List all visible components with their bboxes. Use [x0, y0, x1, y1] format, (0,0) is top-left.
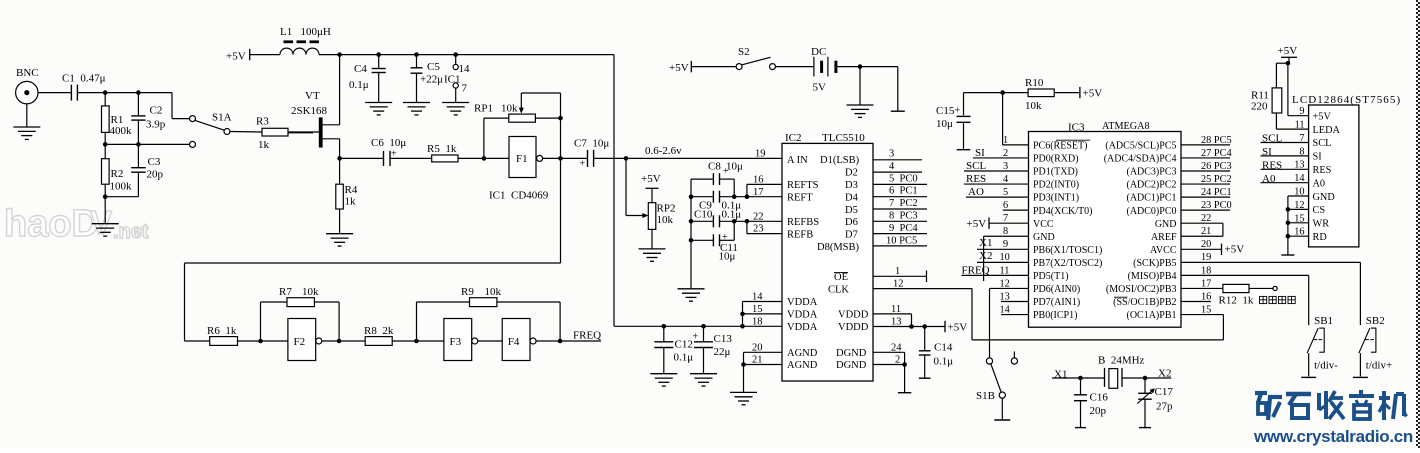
- capacitor C13: [701, 324, 706, 329]
- svg-text:AGND: AGND: [787, 348, 818, 359]
- svg-text:PC6(RESET): PC6(RESET): [1033, 141, 1087, 152]
- svg-text:PD3(INT1): PD3(INT1): [1033, 193, 1079, 204]
- LCD pin labels: [1313, 111, 1341, 243]
- svg-text:C10: C10: [694, 209, 713, 221]
- svg-text:CLK: CLK: [828, 284, 849, 295]
- svg-text:LCD12864(ST7565): LCD12864(ST7565): [1292, 94, 1401, 106]
- svg-text:23 PC0: 23 PC0: [1201, 200, 1232, 211]
- svg-text:27 PC4: 27 PC4: [1201, 148, 1232, 159]
- svg-text:PB7(X2/TOSC2): PB7(X2/TOSC2): [1033, 258, 1102, 269]
- ground: [365, 102, 392, 104]
- resistor R2: [104, 144, 106, 158]
- svg-text:(OC1A)PB1: (OC1A)PB1: [1126, 310, 1176, 321]
- svg-text:5: 5: [1003, 187, 1008, 198]
- wire OE: [873, 275, 927, 277]
- svg-text:8: 8: [1003, 226, 1008, 237]
- wire (REFB pin23): [747, 233, 782, 235]
- wire pin19 SCK to SB2: [1181, 261, 1360, 263]
- svg-text:D1(LSB): D1(LSB): [820, 155, 860, 166]
- svg-text:S2: S2: [738, 46, 750, 58]
- svg-text:16: 16: [1201, 291, 1211, 302]
- svg-text:AREF: AREF: [1151, 232, 1177, 243]
- svg-text:+5V: +5V: [1225, 244, 1245, 256]
- wire D1: [873, 159, 922, 161]
- svg-text:(MOSI/OC2)PB3: (MOSI/OC2)PB3: [1106, 284, 1177, 295]
- capacitor C1: [70, 85, 72, 101]
- svg-text:C4: C4: [354, 63, 367, 75]
- svg-text:WR: WR: [1313, 219, 1330, 230]
- svg-text:R6 1k: R6 1k: [207, 325, 237, 337]
- svg-text:PB0(ICP1): PB0(ICP1): [1033, 310, 1077, 321]
- svg-text:RD: RD: [1313, 232, 1328, 243]
- wire LCD GND chain: [1288, 195, 1309, 197]
- svg-text:10k: 10k: [501, 103, 518, 115]
- wire AGND: [744, 351, 783, 353]
- wire RESET: [1002, 93, 1004, 145]
- wire: [322, 340, 365, 342]
- svg-text:(ADC5/SCL)PC5: (ADC5/SCL)PC5: [1105, 141, 1176, 152]
- wire pins 28-23 stubs: [1181, 144, 1230, 146]
- svg-text:+5V: +5V: [1278, 45, 1298, 57]
- svg-text:AO: AO: [968, 186, 984, 198]
- svg-text:12: 12: [1000, 278, 1010, 289]
- svg-text:21: 21: [752, 355, 763, 366]
- node: [1143, 376, 1148, 381]
- svg-text:C5: C5: [427, 61, 440, 73]
- ground: [26, 104, 28, 127]
- svg-text:A IN: A IN: [787, 155, 808, 166]
- svg-text:19: 19: [755, 149, 766, 160]
- resistor R9: [416, 302, 418, 341]
- svg-text:FREQ: FREQ: [962, 264, 990, 276]
- wire D6: [873, 220, 927, 222]
- node: [624, 156, 629, 161]
- svg-text:400k: 400k: [110, 125, 133, 137]
- svg-text:F2: F2: [294, 336, 306, 348]
- svg-text:D8(MSB): D8(MSB): [817, 242, 860, 253]
- svg-text:C8: C8: [708, 160, 721, 172]
- svg-text:10μ: 10μ: [936, 118, 953, 130]
- node: [103, 194, 108, 199]
- svg-text:SCL: SCL: [1313, 138, 1332, 149]
- svg-text:22μ: 22μ: [714, 346, 731, 358]
- svg-text:VCC: VCC: [1033, 219, 1054, 230]
- svg-text:18: 18: [1201, 265, 1211, 276]
- svg-text:D6: D6: [845, 217, 858, 228]
- svg-text:0.1μ: 0.1μ: [722, 209, 742, 221]
- svg-text:IC3: IC3: [1068, 121, 1085, 133]
- svg-text:DC: DC: [811, 46, 826, 58]
- svg-text:C6 10μ: C6 10μ: [371, 137, 406, 149]
- wire (REFBS pin22): [747, 220, 782, 222]
- capacitor C11: [689, 238, 694, 243]
- svg-text:www.crystalradio.cn: www.crystalradio.cn: [1253, 427, 1413, 446]
- ground: [403, 102, 430, 104]
- svg-text:FREQ: FREQ: [573, 329, 601, 341]
- svg-text:DGND: DGND: [836, 360, 867, 371]
- svg-text:D7: D7: [845, 229, 858, 240]
- wire: [478, 340, 502, 342]
- node: [414, 52, 419, 57]
- svg-text:0.6-2.6v: 0.6-2.6v: [645, 145, 682, 157]
- svg-text:X1: X1: [979, 237, 992, 249]
- svg-text:0.1μ: 0.1μ: [674, 352, 694, 364]
- node (F1 output): [558, 156, 563, 161]
- capacitor C15: [963, 93, 965, 116]
- svg-text:+: +: [955, 105, 961, 116]
- wire: [77, 92, 172, 94]
- ground: [859, 67, 861, 105]
- wire: [536, 340, 601, 342]
- svg-text:PD0(RXD): PD0(RXD): [1033, 154, 1079, 165]
- wire: [560, 158, 562, 263]
- svg-text:DGND: DGND: [836, 348, 867, 359]
- power +5V pin20 AVCC: [1181, 248, 1222, 250]
- svg-text:R8 2k: R8 2k: [364, 325, 394, 337]
- wire pin6 stub: [1003, 209, 1029, 211]
- svg-text:PB6(X1/TOSC1): PB6(X1/TOSC1): [1033, 245, 1102, 256]
- switch S1B: [986, 358, 992, 364]
- wire D5: [873, 208, 927, 210]
- wire D8: [873, 245, 927, 247]
- svg-text:10k: 10k: [1025, 100, 1042, 112]
- wire: [319, 54, 614, 56]
- svg-text:1k: 1k: [345, 196, 357, 208]
- LCD pin numbers: [1294, 106, 1304, 238]
- wire pin15 OC1A: [1181, 314, 1223, 316]
- IC3 ATMEGA8 box: [1029, 132, 1182, 328]
- op-amp U IC2 TLC5510 box: [782, 143, 873, 381]
- svg-text:28 PC5: 28 PC5: [1201, 135, 1232, 146]
- svg-text:REFBS: REFBS: [787, 217, 819, 228]
- svg-text:7: 7: [462, 82, 468, 94]
- decor: [1255, 390, 1407, 420]
- svg-text:t/div-: t/div-: [1314, 359, 1338, 371]
- ground: [104, 197, 106, 224]
- node: [136, 90, 141, 95]
- svg-text:19: 19: [1201, 252, 1211, 263]
- IC1 power pin 7: [453, 83, 458, 88]
- svg-text:+: +: [580, 159, 586, 170]
- svg-text:GND: GND: [1033, 232, 1055, 243]
- svg-text:X2: X2: [979, 250, 992, 262]
- svg-text:F3: F3: [450, 336, 462, 348]
- svg-text:R3: R3: [256, 116, 269, 128]
- svg-text:12: 12: [893, 278, 904, 289]
- svg-text:D5: D5: [845, 205, 858, 216]
- svg-text:SI: SI: [1313, 152, 1323, 163]
- svg-text:RP2: RP2: [657, 203, 676, 215]
- resistor R3: [262, 128, 288, 136]
- svg-text:C13: C13: [714, 333, 733, 345]
- svg-text:2: 2: [1003, 148, 1008, 159]
- wire: [105, 196, 138, 198]
- wire pin13 stub: [1001, 301, 1029, 303]
- node: [337, 156, 342, 161]
- svg-text:+5V: +5V: [1313, 111, 1332, 122]
- ground: [326, 233, 353, 235]
- svg-text:B 24MHz: B 24MHz: [1098, 355, 1145, 367]
- wire DGND: [873, 351, 905, 353]
- svg-text:6: 6: [1003, 200, 1008, 211]
- IC3 pin labels left: [1033, 141, 1102, 322]
- svg-text:+5V: +5V: [641, 173, 661, 185]
- wire: [238, 340, 288, 342]
- wire pin22-21 tie: [1181, 222, 1223, 224]
- svg-text:C1 0.47μ: C1 0.47μ: [62, 73, 106, 85]
- node: [453, 52, 458, 57]
- svg-text:+5V: +5V: [948, 321, 968, 333]
- inverter F4: [502, 319, 530, 361]
- svg-text:23: 23: [753, 224, 764, 235]
- svg-text:D3: D3: [845, 180, 858, 191]
- IC2 pin labels right: [817, 155, 869, 371]
- svg-text:+22μ: +22μ: [420, 74, 443, 86]
- wire VDDA 15: [743, 313, 783, 315]
- resistor R7: [260, 302, 262, 341]
- svg-text:22: 22: [753, 211, 764, 222]
- wire: [288, 131, 319, 133]
- resistor R1: [104, 93, 106, 106]
- svg-text:GND: GND: [1313, 192, 1336, 203]
- decor: [4, 203, 149, 245]
- inverter F2: [288, 319, 316, 361]
- svg-text:3.9p: 3.9p: [146, 119, 166, 131]
- wire: [776, 66, 814, 68]
- resistor R11: [1276, 62, 1288, 64]
- svg-text:ATMEGA8: ATMEGA8: [1102, 121, 1150, 132]
- wire D7: [873, 233, 927, 235]
- svg-text:9: 9: [1003, 239, 1008, 250]
- svg-text:220: 220: [1251, 100, 1268, 112]
- svg-text:3: 3: [889, 149, 894, 160]
- svg-text:F1: F1: [516, 153, 528, 165]
- svg-text:R2: R2: [111, 168, 124, 180]
- svg-text:13: 13: [1000, 291, 1010, 302]
- svg-text:X2: X2: [1158, 368, 1171, 380]
- svg-text:CS: CS: [1313, 205, 1326, 216]
- node: [337, 52, 342, 57]
- svg-text:0.1μ: 0.1μ: [349, 79, 369, 91]
- svg-text:haoD: haoD: [4, 203, 99, 245]
- capacitor C5: [416, 55, 418, 68]
- capacitor C14: [924, 327, 926, 351]
- svg-text:20: 20: [1201, 239, 1211, 250]
- node: [103, 142, 108, 147]
- node: [1078, 376, 1083, 381]
- svg-text:t/div+: t/div+: [1366, 359, 1392, 371]
- svg-text:4: 4: [889, 161, 895, 172]
- svg-text:VDDA: VDDA: [787, 322, 818, 333]
- svg-text:D4: D4: [845, 193, 859, 204]
- capacitor C12: [662, 324, 667, 329]
- svg-text:TLC5510: TLC5510: [822, 132, 865, 144]
- wire pin18 MISO to SB1: [1181, 274, 1309, 276]
- svg-text:27p: 27p: [1156, 401, 1173, 413]
- svg-text:15: 15: [1201, 304, 1211, 315]
- LCD12864 box: [1309, 105, 1359, 247]
- capacitor C6: [340, 157, 384, 159]
- capacitor C10: [689, 219, 694, 224]
- resistor R5: [390, 157, 432, 159]
- svg-text:1k: 1k: [258, 139, 270, 151]
- svg-text:VT: VT: [305, 90, 320, 102]
- svg-text:2SK168: 2SK168: [291, 105, 328, 117]
- svg-text:16: 16: [753, 175, 764, 186]
- wire VDDD 13 to +5V: [873, 326, 945, 328]
- ground: [730, 391, 757, 393]
- capacitor C17 (trimmer): [1144, 378, 1146, 393]
- svg-text:L1 100μH: L1 100μH: [280, 26, 331, 38]
- inverter F1: [509, 137, 536, 178]
- wire: [543, 157, 588, 159]
- connector BNC: [16, 81, 38, 103]
- ground: [442, 102, 469, 104]
- IC3 pin labels right: [1104, 141, 1177, 322]
- resistor R8: [365, 337, 392, 346]
- svg-text:C16: C16: [1090, 392, 1109, 404]
- wire pin14 stub: [1001, 314, 1029, 316]
- svg-text:+: +: [693, 331, 699, 342]
- resistor R10: [964, 92, 1029, 94]
- svg-text:+5V: +5V: [226, 51, 246, 63]
- svg-text:7: 7: [1003, 213, 1008, 224]
- node: [136, 142, 141, 147]
- svg-text:RP1: RP1: [474, 103, 493, 115]
- svg-text:(ADC4/SDA)PC4: (ADC4/SDA)PC4: [1104, 154, 1177, 165]
- svg-text:0.1μ: 0.1μ: [934, 355, 954, 367]
- wire CLK: [873, 288, 972, 290]
- svg-text:10μ: 10μ: [719, 251, 736, 263]
- svg-text:IC2: IC2: [785, 132, 802, 144]
- svg-text:R12 1k: R12 1k: [1219, 295, 1254, 307]
- svg-text:C15: C15: [936, 105, 955, 117]
- svg-text:7 PC2: 7 PC2: [889, 198, 918, 209]
- potentiometer RP2: [625, 158, 627, 215]
- svg-text:C14: C14: [934, 341, 953, 353]
- svg-text:14: 14: [752, 292, 763, 303]
- svg-text:VDDD: VDDD: [838, 310, 869, 321]
- wire D3: [873, 183, 927, 185]
- IC3 pin numbers left: [1000, 135, 1010, 316]
- svg-text:22: 22: [1201, 213, 1211, 224]
- resistor R4: [339, 158, 341, 184]
- wire pin8 GND: [984, 235, 1029, 237]
- wire: [105, 143, 189, 145]
- wire D2: [873, 171, 922, 173]
- svg-text:4: 4: [1003, 174, 1008, 185]
- svg-text:F4: F4: [508, 336, 520, 348]
- svg-text:2: 2: [895, 355, 900, 366]
- svg-text:(ADC3)PC3: (ADC3)PC3: [1126, 167, 1176, 178]
- wire: [392, 340, 444, 342]
- svg-text:SB2: SB2: [1366, 315, 1385, 327]
- wire LCD +5V pin9: [1287, 63, 1289, 115]
- svg-text:RES: RES: [966, 173, 986, 185]
- svg-text:R7: R7: [279, 286, 292, 298]
- svg-text:REFTS: REFTS: [787, 180, 819, 191]
- svg-text:5 PC0: 5 PC0: [889, 173, 918, 184]
- svg-text:REFT: REFT: [787, 193, 813, 204]
- svg-text:PD6(AIN0): PD6(AIN0): [1033, 284, 1080, 295]
- svg-text:PD7(AIN1): PD7(AIN1): [1033, 297, 1080, 308]
- wire D4: [873, 196, 927, 198]
- svg-text:AVCC: AVCC: [1150, 245, 1177, 256]
- svg-text:(ADC0)PC0: (ADC0)PC0: [1126, 206, 1176, 217]
- wire: [458, 157, 509, 159]
- svg-text:100k: 100k: [110, 181, 133, 193]
- capacitor C8: [690, 179, 692, 289]
- svg-text:(SCK)PB5: (SCK)PB5: [1133, 258, 1176, 269]
- svg-text:25 PC2: 25 PC2: [1201, 174, 1232, 185]
- svg-text:S1A: S1A: [212, 112, 232, 124]
- svg-text:VDDA: VDDA: [787, 297, 818, 308]
- node: [376, 52, 381, 57]
- svg-text:PD2(INT0): PD2(INT0): [1033, 180, 1079, 191]
- wire stub: [897, 67, 899, 112]
- wire (REFTS pin16): [747, 183, 782, 185]
- svg-text:10k: 10k: [302, 286, 319, 298]
- svg-text:C3: C3: [148, 156, 161, 168]
- svg-text:R5 1k: R5 1k: [427, 143, 457, 155]
- resistor R12: [1181, 287, 1223, 289]
- wire +5V drop: [613, 55, 615, 327]
- capacitor C4: [378, 55, 380, 69]
- svg-text:5V: 5V: [813, 82, 827, 94]
- svg-text:BNC: BNC: [16, 67, 39, 79]
- svg-text:VDDA: VDDA: [787, 310, 818, 321]
- svg-text:+5V: +5V: [669, 62, 689, 74]
- wire: [38, 92, 71, 94]
- svg-text:REFB: REFB: [787, 229, 813, 240]
- svg-text:V: V: [90, 204, 112, 241]
- IC2 data bus right: [886, 149, 918, 366]
- potentiometer RP1: [483, 118, 485, 158]
- capacitor C16: [1080, 378, 1082, 395]
- svg-text:26 PC3: 26 PC3: [1201, 161, 1232, 172]
- svg-text:21: 21: [1201, 226, 1211, 237]
- svg-text:(ADC1)PC1: (ADC1)PC1: [1126, 193, 1176, 204]
- svg-text:20p: 20p: [147, 169, 164, 181]
- svg-text:8 PC3: 8 PC3: [889, 211, 918, 222]
- svg-text:9 PC4: 9 PC4: [889, 223, 918, 234]
- svg-text:R9: R9: [461, 286, 474, 298]
- ground: [650, 373, 677, 375]
- wire pin12 to S1B: [990, 287, 1029, 289]
- node: [337, 339, 342, 344]
- IC2 pin labels left: [787, 155, 819, 371]
- capacitor C3: [137, 144, 139, 167]
- svg-text:11: 11: [1295, 120, 1305, 131]
- svg-text:C17: C17: [1155, 386, 1174, 398]
- svg-text:S1B: S1B: [976, 390, 995, 402]
- node: [858, 64, 863, 69]
- svg-text:13: 13: [891, 316, 902, 327]
- node: [1286, 61, 1291, 66]
- ground: [639, 248, 666, 250]
- svg-text:1: 1: [1003, 135, 1008, 146]
- wire: [594, 157, 782, 159]
- switch S1A: [171, 93, 173, 119]
- svg-text:(ADC2)PC2: (ADC2)PC2: [1126, 180, 1176, 191]
- net X2: [1145, 377, 1171, 379]
- svg-text:24: 24: [891, 342, 902, 353]
- svg-text:RES: RES: [1313, 165, 1332, 176]
- svg-text:11: 11: [1000, 265, 1010, 276]
- svg-text:17: 17: [753, 187, 764, 198]
- wire: [230, 131, 262, 134]
- svg-text:VDDD: VDDD: [838, 322, 869, 333]
